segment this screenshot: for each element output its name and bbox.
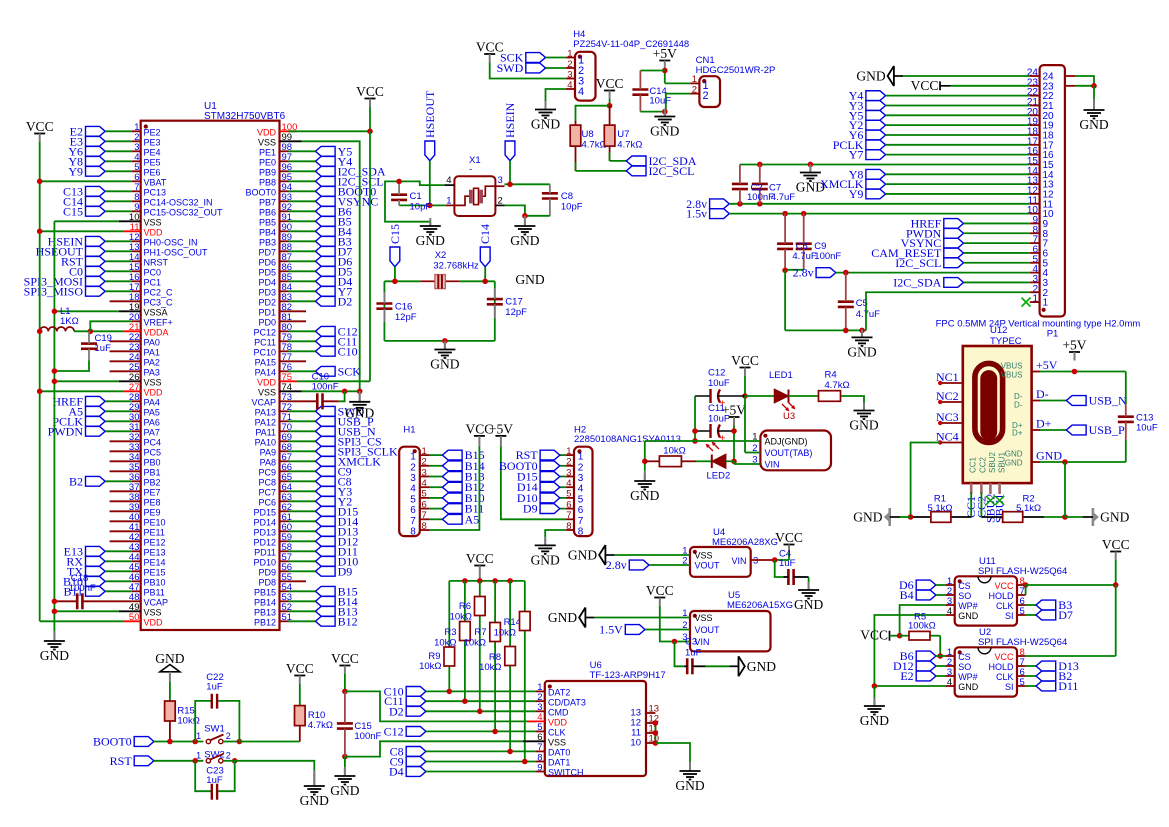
svg-text:6: 6 [578, 505, 584, 516]
svg-text:U3: U3 [783, 411, 795, 422]
svg-text:GND: GND [1036, 449, 1062, 463]
svg-text:10kΩ: 10kΩ [663, 446, 685, 457]
GND arrow flag (P1 pin24) [888, 66, 894, 86]
svg-text:-: - [469, 164, 472, 175]
net flag B12 [315, 616, 335, 626]
ground (CN1) [664, 112, 666, 117]
svg-text:WP#: WP# [958, 672, 978, 682]
IC U1 STM32H750VBT6 [141, 121, 280, 630]
svg-text:VBAT: VBAT [144, 178, 167, 188]
svg-text:10uF: 10uF [708, 378, 730, 389]
svg-text:PD15: PD15 [253, 508, 276, 518]
svg-text:SBU1: SBU1 [997, 452, 1006, 473]
svg-text:VSS: VSS [144, 378, 162, 388]
svg-text:D-: D- [1036, 387, 1049, 401]
svg-text:X2: X2 [435, 250, 447, 261]
wire pin10 VSS [54, 220, 118, 222]
wire CN1 pin2 to GND [666, 94, 690, 112]
net flag E2 [86, 126, 106, 136]
net flag D10 [560, 497, 566, 499]
svg-text:GND: GND [856, 69, 885, 84]
net flag 1.5v (P1 pin10) [710, 209, 730, 219]
svg-text:24: 24 [1043, 72, 1055, 83]
svg-text:GND: GND [40, 648, 69, 663]
svg-text:Y5: Y5 [338, 144, 353, 158]
svg-text:PA4: PA4 [144, 398, 160, 408]
svg-text:PE4: PE4 [144, 148, 161, 158]
net flag C9 [315, 466, 335, 476]
net flag Y5 [315, 146, 335, 156]
svg-text:PE10: PE10 [144, 518, 166, 528]
svg-text:VDDA: VDDA [144, 328, 169, 338]
svg-text:+5V: +5V [1062, 338, 1086, 353]
svg-text:23: 23 [1043, 81, 1055, 92]
net flag USB_N [315, 426, 335, 436]
wire C10 to VSS row [339, 391, 345, 401]
svg-text:PC6: PC6 [258, 498, 276, 508]
net flag D12 [315, 536, 335, 546]
svg-text:GND: GND [794, 597, 823, 612]
svg-text:PD6: PD6 [258, 258, 276, 268]
svg-text:NRST: NRST [144, 258, 169, 268]
net flag D9 [315, 566, 335, 576]
svg-text:20: 20 [1043, 111, 1055, 122]
svg-text:2: 2 [578, 462, 584, 473]
wire VDDA row [74, 330, 124, 332]
svg-text:32.768kHz: 32.768kHz [433, 261, 479, 272]
svg-text:R3: R3 [444, 627, 456, 638]
net flag B10 [429, 497, 442, 499]
net flag Y4 [315, 156, 335, 166]
svg-text:VDD: VDD [144, 228, 164, 238]
svg-text:PE11: PE11 [144, 528, 165, 538]
svg-text:D4: D4 [389, 765, 404, 779]
svg-text:1: 1 [1043, 298, 1049, 309]
svg-text:PD9: PD9 [258, 568, 276, 578]
wire pin99 VSS down to GND [302, 141, 360, 391]
net flag C12 [315, 326, 335, 336]
svg-text:PD14: PD14 [253, 518, 276, 528]
svg-text:RST: RST [110, 754, 133, 768]
net flag I2C_SCL [576, 170, 627, 172]
svg-text:6: 6 [410, 505, 416, 516]
svg-text:VOUT: VOUT [695, 625, 721, 635]
svg-text:GND: GND [853, 510, 882, 525]
svg-text:SPI3_MISO: SPI3_MISO [24, 284, 84, 298]
svg-text:R14: R14 [504, 617, 521, 628]
net flag SPI3_MISO [86, 286, 106, 296]
wire X1 pin1 row / HSEOUT [399, 204, 446, 206]
net flag Y3 [866, 101, 886, 111]
net flag SPI3_MOSI [86, 276, 106, 286]
svg-text:GND: GND [958, 611, 979, 621]
IC U11 SPI FLASH-W25Q64 [955, 576, 1017, 625]
net flag D14 [560, 486, 566, 488]
svg-text:12pF: 12pF [395, 312, 417, 323]
net flag I2C_SDA [315, 166, 335, 176]
svg-text:I2C_SDA: I2C_SDA [893, 275, 941, 289]
svg-text:GND: GND [300, 793, 329, 808]
svg-text:VCC: VCC [356, 84, 384, 99]
svg-text:D+: D+ [1036, 417, 1052, 431]
svg-text:CLK: CLK [548, 728, 566, 738]
ground (bottom of left rail) [53, 631, 55, 641]
svg-text:R6: R6 [459, 601, 471, 612]
svg-text:10kΩ: 10kΩ [177, 716, 199, 727]
svg-text:PA1: PA1 [144, 348, 160, 358]
net flag D11 [315, 546, 335, 556]
svg-text:PD13: PD13 [253, 528, 276, 538]
svg-text:PD3: PD3 [258, 288, 276, 298]
svg-text:VCC: VCC [646, 583, 674, 598]
net flag D15 [315, 506, 335, 516]
connector H1 [399, 447, 420, 536]
net flag 2.8v (P1 pin11) [710, 199, 730, 209]
wire X2 right leg [494, 281, 496, 341]
ground (C5) [861, 330, 863, 337]
ground (near pin74) [359, 391, 361, 402]
svg-text:PC13: PC13 [144, 188, 167, 198]
net flag B3 [315, 236, 335, 246]
GND arrow flag (R2) [1065, 516, 1083, 518]
svg-text:PC11: PC11 [254, 338, 276, 348]
svg-text:LED1: LED1 [769, 370, 793, 381]
net flag C15 (vertical, X2) [390, 247, 400, 267]
net flag C10 [315, 346, 335, 356]
wire C6/C9 to GND row [785, 269, 804, 271]
net flag D5 [315, 266, 335, 276]
wire pin74 VSS [302, 390, 360, 392]
svg-text:USB_N: USB_N [1089, 394, 1127, 408]
svg-text:PE9: PE9 [144, 508, 161, 518]
svg-text:PA11: PA11 [255, 428, 276, 438]
svg-text:D11: D11 [1058, 679, 1078, 693]
svg-text:SBU2: SBU2 [988, 452, 997, 473]
svg-text:PA12: PA12 [255, 418, 276, 428]
svg-text:VCAP: VCAP [144, 598, 169, 608]
wire C9 to U6 [426, 761, 536, 763]
svg-text:10uF: 10uF [1136, 423, 1158, 434]
ground (R4) [863, 403, 865, 411]
wire VCC rail down to pin75 VDD [369, 131, 371, 381]
svg-text:3: 3 [753, 556, 758, 567]
net flag B5 [315, 216, 335, 226]
net flag D13 [1026, 665, 1036, 667]
svg-text:GND: GND [510, 233, 539, 248]
ground (H2) [544, 537, 546, 545]
net flag SWD [526, 63, 546, 73]
net flag Y2 [866, 120, 886, 130]
wire pin49 VSS [54, 610, 118, 612]
svg-text:100nF: 100nF [69, 583, 96, 594]
ground (X1 left) [429, 222, 431, 226]
net flag A5 [429, 518, 442, 520]
svg-text:VSS: VSS [258, 138, 276, 148]
svg-text:10kΩ: 10kΩ [434, 638, 456, 649]
net flag D7 [1026, 614, 1036, 616]
net flag B6 [315, 206, 335, 216]
no-connect X on SBU2/SBU1 [986, 496, 995, 505]
ground (X2) [444, 341, 446, 350]
svg-text:PC14-OSC32_IN: PC14-OSC32_IN [144, 198, 213, 208]
net flag C14 [86, 196, 106, 206]
svg-text:GND: GND [1005, 450, 1023, 459]
svg-text:PB9: PB9 [259, 168, 276, 178]
svg-text:PD12: PD12 [253, 538, 276, 548]
svg-text:P1: P1 [1047, 329, 1059, 340]
net flag D4 [406, 767, 426, 777]
svg-text:PWDN: PWDN [48, 424, 84, 438]
svg-text:GND: GND [847, 344, 876, 359]
svg-text:VSS: VSS [548, 738, 566, 748]
net flag B14 [429, 465, 442, 467]
svg-text:2: 2 [702, 90, 708, 102]
wire VCC down to VOUT [744, 396, 746, 453]
svg-text:GND: GND [515, 272, 544, 287]
svg-text:USB_P: USB_P [1089, 423, 1125, 437]
svg-text:VIN: VIN [731, 556, 746, 566]
svg-text:GND: GND [345, 405, 374, 420]
svg-text:PB4: PB4 [259, 228, 276, 238]
svg-text:HSEOUT: HSEOUT [423, 90, 437, 138]
svg-text:4.7uF: 4.7uF [792, 251, 816, 262]
svg-text:2: 2 [410, 462, 416, 473]
svg-text:PH0-OSC_IN: PH0-OSC_IN [144, 238, 198, 248]
svg-text:4: 4 [410, 484, 416, 495]
svg-text:5: 5 [578, 494, 584, 505]
svg-text:PE7: PE7 [144, 488, 161, 498]
net flag TX [86, 566, 106, 576]
net flag Y9 [86, 166, 106, 176]
svg-text:VCC: VCC [466, 551, 494, 566]
svg-text:10kΩ: 10kΩ [479, 662, 501, 673]
svg-text:PB1: PB1 [144, 468, 161, 478]
svg-text:2: 2 [226, 750, 231, 760]
svg-text:+: + [720, 434, 726, 445]
wire R4 to GND [841, 396, 864, 403]
wire X2 bottom [384, 340, 494, 342]
svg-text:C14: C14 [478, 224, 492, 244]
net flag B13 [429, 476, 442, 478]
svg-text:10pF: 10pF [410, 202, 432, 213]
svg-text:VSS: VSS [695, 551, 713, 561]
svg-text:PE13: PE13 [144, 548, 166, 558]
net flag HSEIN [86, 236, 106, 246]
net flag RST [86, 256, 106, 266]
LED2 arrows [707, 445, 713, 451]
net flag C12 [406, 727, 426, 737]
svg-text:PB7: PB7 [259, 198, 276, 208]
wire pin19 VSSA [54, 310, 118, 312]
svg-text:I2C_SCL: I2C_SCL [895, 256, 941, 270]
svg-text:7: 7 [1043, 239, 1049, 250]
svg-text:+5V: +5V [653, 46, 677, 61]
svg-text:PC10: PC10 [253, 348, 276, 358]
svg-text:VIN: VIN [765, 460, 780, 470]
svg-text:D7: D7 [1058, 608, 1073, 622]
svg-text:GND: GND [416, 233, 445, 248]
svg-text:1uF: 1uF [779, 558, 796, 569]
svg-text:VCC: VCC [596, 76, 624, 91]
svg-text:CC2: CC2 [978, 456, 987, 473]
wire R5 to U2 CS [939, 636, 941, 656]
svg-text:GND: GND [330, 783, 359, 798]
svg-text:Y7: Y7 [849, 148, 864, 162]
wire pin11 VDD to rail [40, 230, 124, 232]
svg-text:GND: GND [1100, 510, 1129, 525]
svg-text:PE12: PE12 [144, 538, 166, 548]
svg-text:22850108ANG1SYA0113: 22850108ANG1SYA0113 [574, 434, 681, 445]
svg-text:1.5v: 1.5v [686, 207, 707, 221]
svg-text:PD1: PD1 [258, 308, 276, 318]
ground (SW2) [313, 770, 315, 786]
svg-text:Y9: Y9 [68, 164, 83, 178]
wire X1 pin3 row to C8 [495, 185, 504, 187]
wire C10 to U6 [426, 690, 536, 692]
svg-text:5: 5 [1043, 258, 1049, 269]
svg-text:D+: D+ [1012, 429, 1023, 438]
svg-text:C12: C12 [708, 368, 725, 379]
svg-text:PB5: PB5 [259, 218, 276, 228]
svg-text:1: 1 [196, 750, 201, 760]
svg-text:12: 12 [1043, 189, 1055, 200]
svg-text:+5V: +5V [1036, 358, 1058, 372]
svg-text:B2: B2 [69, 474, 83, 488]
svg-text:FPC 0.5MM 24P Vertical mountin: FPC 0.5MM 24P Vertical mounting type H2.… [936, 319, 1141, 330]
svg-text:100nF: 100nF [814, 251, 841, 262]
net flag BOOT0 [560, 465, 566, 467]
wire D4 to U6 [426, 771, 536, 773]
wire ladder rail [449, 580, 525, 582]
svg-text:3: 3 [498, 175, 503, 186]
no-connect X on P1 pin1 [1022, 298, 1031, 307]
svg-text:VBUS: VBUS [1001, 362, 1023, 371]
svg-text:PC9: PC9 [258, 468, 276, 478]
wire C19 to GND rail [54, 360, 89, 371]
net flag Y7 [315, 286, 335, 296]
svg-text:ME6206A28XG: ME6206A28XG [712, 537, 778, 548]
wire SW1 to R10 [239, 741, 299, 743]
svg-text:PD2: PD2 [258, 298, 276, 308]
svg-text:C17: C17 [505, 297, 522, 308]
svg-text:PD10: PD10 [253, 558, 276, 568]
svg-text:100kΩ: 100kΩ [908, 621, 936, 632]
wire U3 pin1 to GND [644, 441, 646, 471]
net flag RST [560, 454, 566, 456]
net flag PWDN [86, 426, 106, 436]
svg-text:GND: GND [1005, 458, 1023, 467]
svg-text:6: 6 [1043, 248, 1049, 259]
svg-text:PA2: PA2 [144, 358, 160, 368]
net flag B4 [315, 226, 335, 236]
net flag CAM_RESET [944, 248, 964, 258]
wire NC4 down to R1 row [911, 443, 941, 518]
wire pin50 VDD to rail corner [40, 620, 124, 622]
net flag C8 [315, 476, 335, 486]
svg-text:SO: SO [958, 591, 971, 601]
wire X1 pin4 to GND loop [444, 184, 454, 186]
net flag D15 [560, 476, 566, 478]
svg-text:4: 4 [578, 484, 584, 495]
net flag D6 [916, 580, 936, 590]
svg-text:C1: C1 [410, 191, 422, 202]
svg-text:D2: D2 [389, 704, 404, 718]
svg-text:C3: C3 [685, 637, 697, 648]
svg-text:2: 2 [226, 731, 231, 741]
net flag Y6 [866, 130, 886, 140]
net flag I2C_SDA [610, 160, 627, 162]
net flag BOOT0 [315, 186, 335, 196]
svg-text:BOOT0: BOOT0 [93, 735, 132, 749]
svg-text:PE3: PE3 [144, 138, 161, 148]
svg-text:CMD: CMD [548, 708, 569, 718]
wire pin27 VDD to rail [40, 390, 124, 392]
svg-text:B15: B15 [338, 584, 358, 598]
svg-text:CS: CS [958, 652, 971, 662]
net flag I2C_SDA (P1 pin3) [944, 278, 964, 288]
svg-text:BOOT0: BOOT0 [245, 188, 276, 198]
svg-text:PE14: PE14 [144, 558, 166, 568]
ground (H4) [545, 101, 547, 110]
svg-text:C15: C15 [388, 224, 402, 244]
svg-text:10: 10 [1043, 209, 1055, 220]
svg-text:VCC: VCC [286, 661, 314, 676]
svg-text:1: 1 [410, 452, 416, 463]
net flag B11 [429, 508, 442, 510]
svg-text:SW1: SW1 [204, 724, 225, 735]
svg-text:PA15: PA15 [255, 358, 276, 368]
GND arrow flag (U4) [599, 545, 605, 565]
svg-text:PE6: PE6 [144, 168, 161, 178]
wire GND row under C5 [785, 329, 866, 331]
svg-text:4.7kΩ: 4.7kΩ [825, 380, 850, 391]
IC U6 TF-123-ARP9H17 (SD card) [545, 681, 646, 776]
svg-text:PB13: PB13 [254, 608, 276, 618]
net flag Y8 [86, 156, 106, 166]
svg-text:GND: GND [548, 610, 577, 625]
svg-text:2.8v: 2.8v [606, 558, 627, 572]
svg-text:VCC: VCC [1102, 537, 1130, 552]
net flag I2C_SCL [944, 258, 964, 268]
svg-text:PD0: PD0 [258, 318, 276, 328]
net flag Y3 [315, 486, 335, 496]
svg-text:12pF: 12pF [505, 307, 527, 318]
net flag Y4 [866, 91, 886, 101]
net flag VSYNC [944, 238, 964, 248]
net flag D14 [315, 516, 335, 526]
svg-text:PB11: PB11 [144, 588, 165, 598]
net flag B15 [315, 586, 335, 596]
svg-text:GND: GND [675, 778, 704, 793]
wire VCC to H4 pin3 [490, 63, 566, 79]
svg-text:10uF: 10uF [649, 96, 671, 107]
net flag XMCLK [866, 179, 886, 189]
net flag SPI3_SCLK [315, 446, 335, 456]
svg-text:14: 14 [1043, 170, 1055, 181]
U12 bottom CC/SBU stubs [970, 483, 973, 494]
svg-text:10kΩ: 10kΩ [419, 661, 441, 672]
capacitor C6 4.7uF [777, 242, 793, 245]
net flag SCK [526, 53, 546, 63]
wire pin2 GND [866, 292, 1030, 330]
svg-text:GND: GND [1079, 117, 1108, 132]
capacitor C2 100nF [732, 183, 748, 186]
svg-text:PA0: PA0 [144, 338, 160, 348]
net flag A5 [86, 406, 106, 416]
svg-text:E2: E2 [900, 669, 913, 683]
GND rail left [53, 221, 55, 640]
svg-text:VDD: VDD [257, 128, 277, 138]
